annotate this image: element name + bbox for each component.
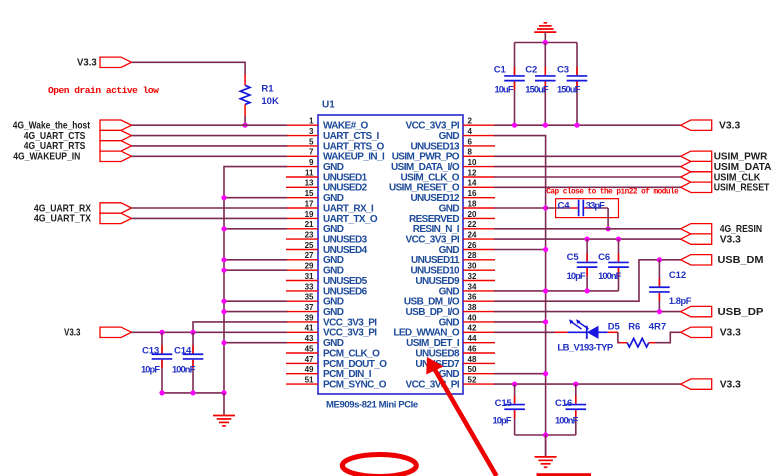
pin 51 PCM_SYNC_O	[286, 376, 387, 391]
svg-text:C4: C4	[558, 201, 571, 212]
svg-text:48: 48	[468, 355, 477, 364]
annotation Open drain active low	[48, 85, 159, 96]
ground bottom-right	[535, 435, 557, 467]
capacitor C6 100nF	[598, 239, 629, 291]
wire top GND rail	[515, 42, 578, 44]
pin 33 UNUSED6	[286, 282, 368, 297]
svg-text:USB_DM: USB_DM	[718, 254, 764, 266]
svg-text:UNUSED11: UNUSED11	[411, 255, 460, 266]
port USIM_DATA	[681, 161, 772, 173]
wire pin27 GND	[224, 259, 287, 261]
junction GND bus pin15	[221, 195, 226, 200]
svg-text:C12: C12	[669, 270, 686, 281]
svg-text:8: 8	[468, 148, 473, 157]
svg-text:GND: GND	[323, 297, 344, 308]
svg-text:1: 1	[309, 117, 314, 126]
wire pin7	[132, 155, 288, 157]
wire pin2 V3.3 rail	[494, 124, 681, 126]
junction GND bus pin37	[221, 309, 226, 314]
svg-text:40: 40	[468, 313, 477, 322]
svg-text:6: 6	[468, 137, 473, 146]
svg-text:52: 52	[468, 376, 477, 385]
svg-text:100nF: 100nF	[172, 364, 196, 374]
wire pin29 GND	[224, 269, 287, 271]
resistor R1 10K	[240, 74, 279, 117]
svg-text:V3.3: V3.3	[719, 120, 740, 132]
svg-text:19: 19	[305, 210, 314, 219]
svg-text:D5: D5	[608, 321, 621, 332]
port 4G_UART_RTS	[24, 140, 132, 152]
wire pin3	[132, 135, 288, 137]
svg-text:USB_DP: USB_DP	[718, 306, 764, 318]
pin 4 GND	[439, 127, 495, 142]
port USIM_PWR	[681, 151, 768, 163]
svg-text:32: 32	[468, 272, 477, 281]
svg-text:UNUSED3: UNUSED3	[323, 235, 368, 246]
pin 47 PCM_DOUT_O	[286, 355, 387, 370]
pin 43 GND	[286, 334, 344, 349]
svg-text:14: 14	[468, 179, 477, 188]
annotation ellipse	[342, 455, 416, 476]
svg-text:UNUSED2: UNUSED2	[323, 183, 368, 194]
svg-text:36: 36	[468, 293, 477, 302]
svg-text:LB_V193-TYP: LB_V193-TYP	[557, 343, 613, 354]
pin 12 USIM_CLK_O	[401, 168, 495, 183]
wire pin1	[132, 124, 288, 126]
svg-text:C15: C15	[495, 398, 513, 409]
wire pin50 GND	[494, 373, 546, 375]
annotation Cap close to the pin22 of module	[546, 189, 679, 197]
wire GND bus right (pin4 down)	[494, 136, 546, 457]
pin 26 GND	[439, 241, 495, 256]
pin 36 USB_DM_I/O	[404, 293, 495, 308]
wire pin10 USIM_DATA	[494, 166, 681, 168]
junction bus pin18	[543, 205, 548, 210]
svg-text:34: 34	[468, 282, 477, 291]
pin 32 UNUSED9	[415, 272, 495, 287]
svg-text:GND: GND	[323, 162, 344, 173]
svg-text:UNUSED9: UNUSED9	[415, 276, 460, 287]
pin 13 UNUSED2	[286, 179, 368, 194]
pin 52 VCC_3V3_PI	[406, 376, 495, 391]
port USB_DM	[681, 254, 764, 266]
svg-text:4G_WAKEUP_IN: 4G_WAKEUP_IN	[13, 151, 80, 163]
svg-text:PCM_DIN_I: PCM_DIN_I	[323, 369, 372, 380]
wire bottom-right GND rail	[515, 434, 576, 436]
pin 14 USIM_RESET_O	[389, 179, 495, 194]
annotation red bar bottom	[537, 473, 592, 476]
annotation box around C4	[556, 199, 619, 218]
wire pin15 GND	[224, 197, 287, 199]
junction C1 bottom	[512, 123, 517, 128]
port 4G_RESIN	[681, 223, 763, 235]
capacitor C3 150uF	[557, 43, 587, 126]
wire pin12 USIM_CLK	[494, 176, 681, 178]
svg-text:24: 24	[468, 231, 477, 240]
pin 39 VCC_3V3_PI	[286, 313, 377, 328]
pin 23 UNUSED3	[286, 231, 368, 246]
svg-text:17: 17	[305, 199, 314, 208]
wire pin17	[132, 207, 288, 209]
pin 15 GND	[286, 189, 344, 204]
pin 31 UNUSED5	[286, 272, 368, 287]
svg-text:4G_UART_TX: 4G_UART_TX	[34, 213, 91, 225]
svg-text:10: 10	[468, 158, 477, 167]
pin 2 VCC_3V3_PI	[406, 117, 495, 132]
svg-text:Open drain active low: Open drain active low	[48, 85, 159, 96]
pin 40 GND	[439, 313, 495, 328]
junction C2 bottom	[543, 123, 548, 128]
svg-text:RESERVED: RESERVED	[409, 214, 459, 225]
svg-text:4: 4	[468, 127, 473, 136]
svg-text:V3.3: V3.3	[77, 57, 97, 69]
pin 24 VCC_3V3_PI	[406, 231, 495, 246]
svg-text:51: 51	[305, 376, 314, 385]
svg-text:37: 37	[305, 303, 314, 312]
pin 16 UNUSED12	[410, 189, 495, 204]
svg-text:41: 41	[305, 324, 314, 333]
junction bus pin40	[543, 319, 548, 324]
svg-text:USIM_RESET_O: USIM_RESET_O	[389, 183, 460, 194]
svg-text:9: 9	[309, 158, 314, 167]
pin 5 UART_RTS_O	[286, 137, 384, 152]
port USB_DP	[681, 306, 764, 318]
svg-text:USB_DM_I/O: USB_DM_I/O	[404, 297, 460, 308]
wire pin34 GND rail	[494, 290, 619, 292]
svg-text:VCC_3V3_PI: VCC_3V3_PI	[406, 235, 460, 246]
svg-text:2: 2	[468, 117, 473, 126]
svg-text:100nF: 100nF	[598, 271, 622, 281]
svg-text:100nF: 100nF	[555, 416, 579, 426]
pin 30 UNUSED10	[410, 262, 495, 277]
svg-text:U1: U1	[322, 100, 335, 111]
capacitor C2 150uF	[525, 43, 555, 126]
port V3.3 top-left	[77, 57, 132, 69]
port V3.3 (LED)	[681, 327, 741, 339]
svg-text:10K: 10K	[261, 96, 279, 107]
svg-text:26: 26	[468, 241, 477, 250]
svg-text:4R7: 4R7	[649, 321, 666, 332]
svg-text:33pF: 33pF	[586, 201, 605, 211]
capacitor C12 1.8pF	[649, 260, 692, 312]
pin 20 RESERVED	[409, 210, 495, 225]
port V3.3 bottom-right	[681, 378, 741, 390]
svg-text:R6: R6	[628, 321, 640, 332]
svg-text:UART_TX_O: UART_TX_O	[323, 214, 378, 225]
pin 35 GND	[286, 293, 344, 308]
junction top rail	[543, 40, 548, 45]
pin 8 USIM_PWR_PO	[392, 148, 495, 163]
pin 44 USIM_DET_I	[406, 334, 495, 349]
pin 42 LED_WWAN_O	[393, 324, 495, 339]
svg-text:VCC_3V3_PI: VCC_3V3_PI	[406, 121, 460, 132]
ground lower-left	[213, 393, 235, 426]
pin 1 WAKE#_O	[286, 117, 369, 132]
svg-text:1.8pF: 1.8pF	[669, 296, 692, 306]
pin 28 UNUSED11	[411, 251, 495, 266]
svg-text:33: 33	[305, 282, 314, 291]
pin 7 WAKEUP_IN_I	[286, 148, 385, 163]
wire pin24 V3.3	[494, 238, 681, 240]
junction C3 bottom	[574, 123, 579, 128]
wire pin5	[132, 145, 288, 147]
pin 6 UNUSED13	[410, 137, 495, 152]
junction C12 top	[657, 257, 662, 262]
svg-text:3: 3	[309, 127, 314, 136]
svg-text:V3.3: V3.3	[720, 233, 741, 245]
svg-text:WAKE#_O: WAKE#_O	[323, 121, 369, 132]
svg-text:V3.3: V3.3	[64, 327, 81, 339]
svg-text:16: 16	[468, 189, 477, 198]
svg-text:28: 28	[468, 251, 477, 260]
wire bottom-left GND rail	[162, 392, 224, 394]
wire pin40 GND	[494, 321, 546, 323]
junction C6 top	[616, 237, 621, 242]
junction C12 bottom	[657, 309, 662, 314]
pin 19 UART_TX_O	[286, 210, 378, 225]
wire LED to R6	[618, 332, 621, 342]
svg-text:10pF: 10pF	[141, 364, 160, 374]
wire R6 to V3.3 port	[655, 332, 680, 342]
svg-text:PCM_CLK_O: PCM_CLK_O	[323, 348, 380, 359]
pin 46 UNUSED8	[415, 344, 495, 359]
svg-text:GND: GND	[439, 203, 460, 214]
junction rail C13	[159, 390, 164, 395]
pin 48 UNUSED7	[415, 355, 495, 370]
svg-text:13: 13	[305, 179, 314, 188]
svg-text:38: 38	[468, 303, 477, 312]
wire pin8 USIM_PWR	[494, 155, 681, 157]
svg-text:18: 18	[468, 199, 477, 208]
svg-text:VCC_3V3_PI: VCC_3V3_PI	[323, 328, 377, 339]
junction bus pin50	[543, 371, 548, 376]
svg-text:49: 49	[305, 365, 314, 374]
svg-text:50: 50	[468, 365, 477, 374]
svg-text:GND: GND	[439, 317, 460, 328]
wire pin36 USB_DM	[494, 260, 681, 301]
svg-text:10pF: 10pF	[493, 416, 512, 426]
svg-text:C3: C3	[557, 64, 569, 75]
junction GND bus pin35	[221, 299, 226, 304]
wire R1 to pin1 net	[244, 116, 246, 125]
capacitor C14 100nF	[172, 332, 203, 393]
capacitor C5 10pF	[567, 239, 598, 291]
port 4G_WAKEUP_IN	[13, 151, 131, 163]
wire pin26 GND	[494, 249, 546, 251]
svg-text:21: 21	[305, 220, 314, 229]
LED D5 LB_V193-TYP	[494, 319, 621, 353]
pin 27 GND	[286, 251, 344, 266]
wire V3.3 to R1	[132, 62, 246, 74]
port V3.3 right-top	[681, 120, 741, 132]
capacitor C13 10pF	[141, 332, 172, 393]
port 4G_UART_TX	[34, 213, 132, 225]
capacitor C1 10uF	[494, 43, 525, 126]
pin 9 GND	[286, 158, 344, 173]
svg-text:43: 43	[305, 334, 314, 343]
pin 34 GND	[439, 282, 495, 297]
pin 11 UNUSED1	[286, 168, 368, 183]
svg-text:44: 44	[468, 334, 477, 343]
junction bus pin34	[543, 288, 548, 293]
svg-text:35: 35	[305, 293, 314, 302]
junction C16 top	[573, 382, 578, 387]
wire pin35 GND	[224, 300, 287, 302]
svg-text:C1: C1	[494, 64, 507, 75]
svg-text:5: 5	[309, 137, 314, 146]
port USIM_RESET	[681, 182, 770, 194]
svg-text:UART_RTS_O: UART_RTS_O	[323, 141, 384, 152]
junction C15 top	[512, 382, 517, 387]
svg-text:31: 31	[305, 272, 314, 281]
svg-text:42: 42	[468, 324, 477, 333]
junction C14 top	[190, 330, 195, 335]
ground top (C1-C3)	[534, 23, 556, 43]
pin 29 GND	[286, 262, 344, 277]
svg-text:VCC_3V3_PI: VCC_3V3_PI	[406, 380, 460, 391]
svg-text:C14: C14	[174, 346, 192, 357]
svg-text:V3.3: V3.3	[720, 327, 741, 339]
pin 10 USIM_DATA_I/O	[391, 158, 495, 173]
svg-text:C16: C16	[555, 398, 572, 409]
svg-text:C5: C5	[567, 252, 580, 263]
svg-text:7: 7	[309, 148, 314, 157]
svg-text:25: 25	[305, 241, 314, 250]
pin 17 UART_RX_I	[286, 199, 374, 214]
junction GND bus pin29	[221, 268, 226, 273]
svg-text:PCM_SYNC_O: PCM_SYNC_O	[323, 380, 387, 391]
svg-text:USIM_DATA_I/O: USIM_DATA_I/O	[391, 162, 460, 173]
pin 45 PCM_CLK_O	[286, 344, 380, 359]
wire pin22 RESIN	[494, 228, 681, 230]
svg-text:V3.3: V3.3	[720, 378, 741, 390]
pin 49 PCM_DIN_I	[286, 365, 372, 380]
wire pin43 GND	[224, 342, 287, 344]
svg-text:46: 46	[468, 344, 477, 353]
wire pin18 GND	[494, 207, 546, 209]
port 4G_UART_CTS	[24, 130, 132, 142]
pin 25 UNUSED4	[286, 241, 368, 256]
svg-text:30: 30	[468, 262, 477, 271]
svg-text:UNUSED8: UNUSED8	[415, 348, 460, 359]
junction bus pin26	[543, 247, 548, 252]
resistor R6 4R7	[620, 321, 667, 347]
capacitor C15 10pF	[493, 384, 525, 435]
svg-text:UNUSED13: UNUSED13	[410, 141, 460, 152]
junction rail C14	[190, 390, 195, 395]
svg-text:12: 12	[468, 168, 477, 177]
svg-text:10pF: 10pF	[567, 271, 586, 281]
capacitor C16 100nF	[555, 384, 586, 435]
svg-text:20: 20	[468, 210, 477, 219]
pin 50 GND	[439, 365, 495, 380]
svg-text:Cap close to the pin22 of modu: Cap close to the pin22 of module	[546, 189, 679, 197]
junction C4/pin22	[606, 226, 611, 231]
pin 37 GND	[286, 303, 344, 318]
svg-text:29: 29	[305, 262, 314, 271]
svg-text:C6: C6	[598, 252, 610, 263]
svg-text:22: 22	[468, 220, 477, 229]
svg-text:GND: GND	[323, 255, 344, 266]
svg-text:27: 27	[305, 251, 314, 260]
svg-text:UNUSED5: UNUSED5	[323, 276, 368, 287]
wire C4 to pin22 net	[607, 208, 609, 229]
port 4G_Wake_the_host	[13, 120, 132, 132]
port V3.3 (pin24)	[681, 233, 741, 245]
wire GND bus left (pin9 down)	[224, 167, 287, 393]
wire pin38 USB_DP	[494, 311, 681, 313]
junction rail bus	[221, 390, 226, 395]
junction rail bus right	[543, 432, 548, 437]
svg-text:11: 11	[305, 168, 314, 177]
svg-text:23: 23	[305, 231, 314, 240]
svg-text:ME909s-821 Mini PCIe: ME909s-821 Mini PCIe	[326, 400, 418, 411]
wire pin14 USIM_RESET	[494, 186, 681, 188]
svg-text:15: 15	[305, 189, 314, 198]
junction GND bus pin21	[221, 226, 226, 231]
junction C5 bottom	[585, 288, 590, 293]
wire pin37 GND	[224, 311, 287, 313]
pin 18 GND	[439, 199, 495, 214]
svg-text:USIM_RESET: USIM_RESET	[714, 182, 770, 194]
pin 21 GND	[286, 220, 344, 235]
junction GND bus pin43	[221, 340, 226, 345]
pin 41 VCC_3V3_PI	[286, 324, 377, 339]
junction R1/pin1	[243, 123, 248, 128]
wire pin19	[132, 217, 288, 219]
junction C13 top	[159, 330, 164, 335]
svg-text:45: 45	[305, 344, 314, 353]
svg-text:LED_WWAN_O: LED_WWAN_O	[393, 328, 459, 339]
wire pin52 V3.3	[494, 383, 681, 385]
svg-text:150uF: 150uF	[557, 84, 581, 94]
IC U1 ME909s-821 Mini PCIe module body	[318, 100, 463, 411]
pin 38 USB_DP_I/O	[406, 303, 495, 318]
port USIM_CLK	[681, 171, 761, 183]
junction GND bus pin27	[221, 257, 226, 262]
svg-text:39: 39	[305, 313, 314, 322]
svg-text:R1: R1	[261, 84, 274, 95]
svg-text:VCC_3V3_PI: VCC_3V3_PI	[323, 317, 377, 328]
svg-text:C2: C2	[525, 64, 537, 75]
pin 22 RESIN_N_I	[413, 220, 495, 235]
svg-text:UART_RX_I: UART_RX_I	[323, 203, 374, 214]
annotation arrow to USIM_DET_I	[426, 357, 496, 476]
svg-text:10uF: 10uF	[495, 84, 514, 94]
svg-text:47: 47	[305, 355, 314, 364]
svg-text:150uF: 150uF	[525, 84, 549, 94]
wire pin41 V3.3	[132, 331, 288, 333]
port V3.3 lower-left	[64, 327, 132, 339]
wire pin21 GND	[224, 228, 287, 230]
wire pin39 V3.3 jog	[193, 322, 287, 332]
capacitor C4 33pF	[546, 200, 609, 216]
port 4G_UART_RX	[34, 202, 132, 214]
svg-text:C13: C13	[142, 346, 159, 357]
junction C5 top	[585, 237, 590, 242]
pin 3 UART_CTS_I	[286, 127, 379, 142]
